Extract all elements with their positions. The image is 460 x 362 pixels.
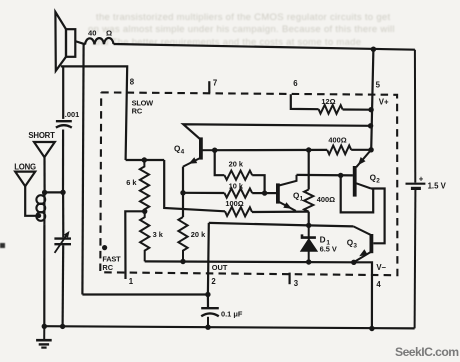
IC LM3909 dashed outline [100, 92, 397, 275]
resistor 100Ω [225, 207, 252, 217]
inductor L1 (antenna coil) [36, 192, 45, 224]
svg-text:D: D [320, 236, 326, 245]
node ground rail / varcap [60, 324, 65, 329]
svg-text:3: 3 [353, 243, 357, 250]
svg-text:0.1 μF: 0.1 μF [221, 309, 243, 318]
svg-text:1: 1 [300, 195, 304, 202]
svg-text:SHORT: SHORT [28, 131, 55, 140]
node 6k top [142, 157, 147, 162]
svg-text:40: 40 [88, 28, 96, 37]
wire Q2 base-collector tie [341, 175, 374, 212]
svg-text:20 k: 20 k [191, 230, 206, 239]
antenna LONG [15, 172, 35, 187]
svg-text:.001: .001 [65, 110, 79, 119]
svg-text:6: 6 [293, 79, 298, 88]
wire Q3 collector [309, 225, 354, 226]
antenna SHORT [34, 142, 55, 157]
transistor Q1 [278, 175, 297, 211]
wire 100Ω right lead to emitter node [252, 211, 309, 214]
wire Q4 collector rail [183, 124, 370, 140]
svg-text:10 k: 10 k [229, 181, 244, 190]
resistor 3k [140, 211, 149, 261]
wire 400Ω-H to V+ rail [351, 149, 371, 151]
wire tank top [45, 191, 63, 193]
capacitor 0.1 µF [201, 308, 219, 327]
svg-text:1: 1 [129, 277, 134, 286]
svg-text:20 k: 20 k [229, 159, 244, 168]
battery B1 1.5V [406, 50, 426, 329]
wire .001 cap top lead [62, 66, 64, 119]
transistor Q3 [353, 226, 371, 262]
wire speaker top terminal [75, 41, 85, 44]
transistor Q2 [355, 150, 371, 197]
resistor 400Ω horizontal [327, 145, 351, 154]
wire SHORT antenna lead [43, 157, 45, 192]
resistor 6k [140, 160, 149, 211]
resistor 10k [224, 188, 252, 197]
svg-text:3: 3 [294, 279, 299, 288]
node D1 cathode top [306, 223, 311, 228]
wire 20k-H left lead [215, 150, 225, 175]
label Q4 [174, 145, 185, 156]
svg-text:V–: V– [376, 263, 386, 272]
speaker LS1 [55, 12, 75, 71]
wire 10k left lead [183, 192, 224, 194]
svg-text:V+: V+ [379, 98, 389, 107]
wire LONG antenna lead [25, 186, 39, 216]
node V+ rail / collector wire [368, 123, 373, 128]
svg-text:RC: RC [102, 263, 113, 272]
pin 6 stub [291, 94, 319, 109]
svg-text:FAST: FAST [102, 254, 121, 263]
label Q3 [347, 239, 358, 250]
svg-text:RC: RC [132, 107, 143, 116]
label D1 [320, 236, 331, 247]
wire 20k-H right lead to base node [252, 175, 264, 193]
svg-text:3 k: 3 k [153, 230, 164, 239]
wire Q4 emitter down [182, 167, 184, 217]
wire OUT top to D1 node [209, 223, 309, 226]
wire 12Ω to V+ rail [343, 108, 372, 110]
node Q4 base / 20k tap [212, 148, 217, 153]
node 400Ω-V top [306, 147, 311, 152]
svg-text:2: 2 [376, 177, 380, 184]
node 0.1uF bottom / ground rail [205, 325, 210, 330]
node Q3 emitter [351, 260, 356, 265]
wire Q2 collector to Q3 base [371, 189, 385, 244]
node FAST RC indicator dot [102, 245, 107, 250]
resistor 20k horizontal [224, 171, 252, 180]
svg-text:4: 4 [181, 149, 185, 156]
svg-text:8: 8 [130, 78, 135, 87]
label FAST RC [102, 254, 121, 272]
transistor Q4 [183, 137, 215, 166]
svg-text:4: 4 [376, 280, 381, 289]
label 40 Ω [88, 28, 112, 37]
wire OUT column [207, 223, 210, 308]
wire V- pin 4 [354, 262, 372, 328]
wire V+ rail [371, 49, 373, 150]
node V+ rail / 400Ω / Q2 emitter [368, 147, 373, 152]
label Q1 [293, 191, 304, 202]
node top rail / V+ rail junction [371, 47, 376, 52]
pin 7 stub [208, 81, 210, 93]
wire ground rail [44, 326, 414, 328]
node LONG lead to coil tap [37, 214, 42, 219]
wire speaker bottom terminal [61, 66, 127, 160]
label Q2 [370, 173, 381, 184]
svg-text:7: 7 [213, 78, 217, 87]
resistor 400Ω vertical [304, 190, 313, 212]
capacitor C1 (variable) [54, 231, 71, 253]
svg-text:1.5 V: 1.5 V [428, 182, 447, 191]
wire bottom-left to OUT node [82, 293, 207, 295]
wire 100Ω feed [164, 160, 225, 211]
wire Q1 collector to Q2 base [297, 174, 353, 177]
svg-text:2: 2 [211, 277, 216, 286]
resistor 20k vertical [178, 217, 187, 262]
label SLOW RC [132, 98, 154, 115]
wire 400Ω-V bottom lead [308, 212, 310, 226]
svg-text:+: + [419, 175, 424, 184]
svg-text:6 k: 6 k [126, 178, 137, 187]
wire 6k top row [126, 159, 165, 161]
resistor 12Ω [319, 105, 343, 114]
node ground rail / coil [42, 324, 47, 329]
resistor 40Ω (voice coil, drawn as coil) [85, 38, 114, 45]
node 6k bottom / pin1 / 3k [142, 209, 147, 214]
wire .001 cap bottom lead [62, 130, 64, 193]
wire Q4 base row [215, 149, 328, 152]
diode D1 (zener 6.5V) [301, 225, 318, 262]
pin 3 stub [289, 273, 291, 285]
node tank left [42, 190, 47, 195]
svg-text:12Ω: 12Ω [321, 97, 335, 106]
svg-text:6.5 V: 6.5 V [320, 244, 337, 253]
wire varcap bottom lead [61, 245, 64, 326]
svg-text:5: 5 [376, 80, 381, 89]
wire speaker-coil junction down left side [82, 44, 83, 294]
node 20k-V bottom [180, 259, 185, 264]
wire pin 1 dogleg [125, 211, 144, 279]
node tank right [60, 190, 65, 195]
wire top rail to battery [114, 44, 415, 50]
node OUT / 0.1uF top [205, 292, 210, 297]
svg-text:100Ω: 100Ω [225, 199, 243, 208]
wire 10k right lead [252, 192, 264, 194]
svg-text:400Ω: 400Ω [328, 135, 346, 144]
wire to Q1 base [265, 192, 277, 194]
node Q2 base tie [338, 173, 343, 178]
node 12Ω / V+ rail [368, 107, 373, 112]
wire emitter bus [145, 260, 354, 263]
svg-text:LONG: LONG [14, 163, 36, 172]
svg-text:400Ω: 400Ω [317, 195, 335, 204]
ground [36, 326, 52, 347]
node Q1 base junction [262, 190, 267, 195]
wire varcap top lead [62, 192, 64, 237]
svg-text:Ω: Ω [106, 29, 112, 38]
node D1 anode [306, 259, 311, 264]
wire coil bottom to ground rail [43, 224, 45, 326]
wire 400Ω-V top lead [308, 150, 310, 190]
node Q4 emitter / 10k tap [180, 190, 185, 195]
svg-text:OUT: OUT [212, 263, 228, 272]
capacitor .001 [56, 121, 72, 127]
node V- / ground rail [369, 326, 374, 331]
